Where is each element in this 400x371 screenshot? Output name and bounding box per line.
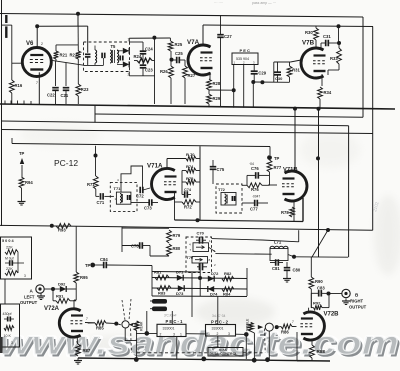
wire input rail x12 bbox=[11, 25, 13, 80]
wire R25 top bbox=[169, 38, 171, 41]
capacitor C28 bbox=[274, 62, 283, 82]
svg-text:TP: TP bbox=[19, 151, 25, 156]
svg-text:C25: C25 bbox=[175, 51, 183, 56]
svg-text:R95: R95 bbox=[80, 275, 88, 280]
wire dot1 drop bbox=[77, 14, 79, 26]
wire V6 plate to bus bbox=[36, 26, 38, 48]
junction dot treble out bbox=[275, 325, 279, 329]
potentiometer TREBLE bbox=[246, 318, 274, 332]
junction dot PEC-1 in bbox=[145, 331, 150, 336]
junction dot y230 x328 bbox=[326, 228, 330, 232]
wire PEC-2 out bbox=[236, 333, 247, 335]
svg-text:3: 3 bbox=[24, 274, 26, 278]
diode D92 bbox=[53, 282, 76, 293]
wire R21 bottom bbox=[55, 59, 57, 61]
resistor R79 bbox=[167, 230, 181, 243]
svg-text:REAR: REAR bbox=[140, 321, 144, 331]
resistor R21 bbox=[54, 51, 68, 59]
wire T70 leg a bbox=[191, 272, 193, 317]
svg-text:R94: R94 bbox=[25, 180, 33, 185]
wire bottom bus bbox=[78, 358, 330, 361]
resistor R92 bbox=[311, 293, 329, 310]
module PEC pin 3 wire bbox=[253, 65, 255, 72]
wire jack to node bbox=[44, 288, 53, 290]
svg-text:R72: R72 bbox=[184, 205, 192, 210]
wire T3 module bottom row bbox=[84, 64, 104, 66]
linkage dashed rear pot bbox=[130, 329, 133, 353]
wire cathode line y221 bbox=[175, 220, 304, 222]
svg-text:V71A: V71A bbox=[147, 163, 163, 170]
svg-text:C78: C78 bbox=[131, 244, 139, 249]
capacitor C73 bbox=[144, 199, 158, 210]
svg-text:OUTPUT: OUTPUT bbox=[20, 300, 38, 305]
wire V72B plate lead bbox=[308, 308, 310, 312]
wire V7B cathode down bbox=[321, 74, 323, 86]
svg-text:V72A: V72A bbox=[44, 306, 60, 312]
capacitor C21 bbox=[61, 88, 70, 104]
wire V7B grid stub bbox=[290, 60, 301, 62]
test point TP right bbox=[267, 155, 279, 161]
bus tick 5 bbox=[30, 101, 32, 104]
svg-text:LEFT: LEFT bbox=[24, 295, 35, 300]
capacitor inside T3 module bbox=[85, 54, 91, 65]
wire T3 pin1 row bbox=[130, 41, 144, 43]
wire T70 upper out bbox=[209, 247, 216, 252]
wire x122 drop bbox=[121, 227, 123, 252]
junction dot bus x267 bbox=[265, 357, 270, 362]
svg-text:3•L·C’·34: 3•L·C’·34 bbox=[212, 314, 226, 318]
junction dot R85 node bbox=[114, 322, 118, 326]
svg-text:5 0 0 4: 5 0 0 4 bbox=[2, 239, 14, 243]
switch contact lower box bbox=[192, 257, 208, 264]
resistor R24 bbox=[134, 54, 155, 63]
bus tick 3 bbox=[17, 101, 19, 105]
resistor R34 bbox=[318, 87, 332, 108]
linkage dashed left bbox=[137, 352, 208, 354]
wire B+ drop to C31 bbox=[338, 26, 340, 43]
wire to jack B bbox=[329, 293, 342, 295]
svg-text:R77: R77 bbox=[274, 165, 282, 170]
resistor R80 bbox=[167, 244, 181, 256]
wire gate mid drop bbox=[199, 263, 201, 297]
svg-text:C27: C27 bbox=[224, 34, 232, 39]
record head upper bbox=[150, 299, 167, 304]
wire B+ drop x200 bbox=[199, 146, 201, 220]
wire PEC-1 dot up bbox=[146, 311, 148, 333]
wire V71A cathode down bbox=[174, 192, 176, 220]
svg-text:C77: C77 bbox=[250, 207, 258, 212]
svg-text:R79: R79 bbox=[173, 233, 181, 238]
wire V6 grid bbox=[12, 62, 23, 64]
wire bus line2 bbox=[95, 114, 363, 117]
capacitor C72 bbox=[136, 187, 150, 199]
capacitor T3 right bbox=[120, 56, 123, 61]
resistor R84 bbox=[222, 287, 234, 297]
svg-text:C81: C81 bbox=[272, 266, 280, 271]
svg-text:7: 7 bbox=[86, 317, 88, 321]
junction dot jack B node bbox=[327, 292, 331, 296]
wire line5 corner drop bbox=[269, 147, 271, 156]
diode D2 in T3 bbox=[117, 61, 129, 67]
module PEC pin 2 wire bbox=[243, 65, 245, 108]
wire PEC-1 pin3 down bbox=[176, 337, 178, 359]
diode D73 bbox=[176, 285, 184, 296]
transformer T71 winding bbox=[120, 194, 122, 203]
junction dot feed V71A grid chain bbox=[94, 154, 98, 158]
junction dot gate mid bbox=[198, 276, 202, 280]
capacitor C80 bbox=[284, 262, 301, 276]
svg-text:P E C: P E C bbox=[240, 48, 250, 53]
wire L71 to node bbox=[288, 255, 294, 257]
test point TP mid bbox=[85, 263, 95, 268]
transformer T71 dashed box bbox=[110, 182, 137, 211]
wire gate row2 bbox=[152, 288, 247, 289]
transformer T72 dashed box bbox=[216, 184, 242, 213]
tube V71B bbox=[282, 167, 307, 201]
wire left edge rail bbox=[1, 0, 3, 226]
svg-text:R92: R92 bbox=[313, 301, 321, 306]
svg-text:R80: R80 bbox=[173, 246, 181, 251]
junction dot bus x254 bbox=[252, 358, 257, 363]
svg-text:C22: C22 bbox=[47, 93, 55, 98]
wire screen feed row bbox=[209, 89, 234, 91]
svg-text:V7A: V7A bbox=[187, 39, 200, 46]
wire bus line3 bbox=[2, 121, 349, 126]
svg-text:R16: R16 bbox=[15, 83, 23, 88]
wire V72B bottom loop bbox=[296, 332, 298, 361]
capacitor C70 bbox=[196, 231, 206, 244]
junction dot bus x203 bbox=[201, 357, 206, 362]
wire plate row bbox=[167, 158, 186, 160]
resistor R91 bbox=[53, 289, 76, 303]
wire V71B grid stub bbox=[268, 184, 277, 186]
transformer T3 primary winding bbox=[95, 50, 97, 63]
module PEC 535904 bbox=[232, 53, 258, 65]
wire feedback line y226 bbox=[0, 225, 122, 226]
junction dot bus x296 bbox=[293, 107, 297, 111]
svg-text:R75: R75 bbox=[186, 176, 194, 181]
svg-text:7: 7 bbox=[36, 81, 38, 85]
svg-text:R90: R90 bbox=[315, 279, 323, 284]
wire T71 pin4 riser bbox=[121, 166, 143, 192]
svg-text:22K: 22K bbox=[6, 246, 13, 250]
transformer T3 tertiary winding bbox=[117, 50, 119, 63]
wire x311 drop to R90 bbox=[310, 257, 312, 277]
tube V7B bbox=[301, 40, 326, 79]
capacitor C71 bbox=[97, 193, 114, 205]
resistor R29 bbox=[207, 90, 221, 107]
wire V7A cathode bbox=[209, 72, 211, 79]
wire C29 drop to bus bbox=[252, 82, 254, 108]
wire treble pot down bbox=[268, 331, 270, 360]
resistor R87 bbox=[76, 344, 91, 356]
wire x95 drop bbox=[95, 146, 97, 176]
junction dot L71 node bbox=[292, 255, 296, 259]
wire bias line bbox=[129, 37, 170, 39]
svg-text:C31: C31 bbox=[323, 34, 331, 39]
wire R22 below bbox=[77, 59, 79, 64]
svg-text:333001: 333001 bbox=[163, 326, 175, 330]
svg-text:C72: C72 bbox=[136, 194, 144, 199]
wire gate box bottom bbox=[152, 295, 247, 298]
wire V6 plate to T3 bbox=[52, 60, 84, 65]
svg-text:10 K: 10 K bbox=[4, 334, 12, 338]
resistor R86 bbox=[277, 324, 297, 334]
jack B right output bbox=[342, 289, 367, 309]
wire gate right rail bbox=[246, 268, 248, 296]
module PEC pin 1 wire bbox=[233, 65, 235, 91]
svg-text:R28: R28 bbox=[213, 81, 221, 86]
wire head leg to PEC-1 top bbox=[171, 311, 173, 324]
svg-text:T71: T71 bbox=[114, 186, 122, 191]
svg-text:3: 3 bbox=[228, 332, 230, 336]
junction dot V7A grid node bbox=[170, 58, 174, 62]
diode D74 bbox=[208, 286, 218, 296]
svg-text:R93: R93 bbox=[58, 228, 66, 233]
wire bus line5 bbox=[12, 144, 270, 147]
capacitor C25 bbox=[172, 51, 186, 63]
wire T71 out right bbox=[131, 202, 145, 204]
resistor R90 bbox=[309, 277, 323, 289]
svg-text:··· ····: ··· ···· bbox=[214, 1, 223, 5]
svg-text:333001: 333001 bbox=[212, 327, 224, 331]
svg-text:R26: R26 bbox=[160, 69, 168, 74]
wire V72A plate up bbox=[73, 300, 75, 310]
svg-text:C83: C83 bbox=[317, 286, 325, 291]
capacitor C29 bbox=[251, 71, 267, 83]
svg-text:7: 7 bbox=[292, 320, 294, 324]
ground at left jack bbox=[40, 294, 42, 297]
label DUAL CONTROL bbox=[208, 348, 243, 357]
wire heads dashed b bbox=[129, 299, 131, 320]
tube V71A bbox=[147, 163, 177, 200]
svg-text:V72B: V72B bbox=[324, 312, 340, 318]
ground below R94 bbox=[21, 199, 23, 202]
capacitor C31 bbox=[321, 34, 339, 48]
wire right rail x155 bbox=[154, 38, 156, 104]
transformer T3 core bbox=[112, 50, 114, 63]
ground below C80 bbox=[286, 276, 288, 279]
shield bold mark a bbox=[5, 15, 7, 23]
svg-text:C80: C80 bbox=[293, 268, 301, 273]
capacitor C78 bbox=[122, 242, 169, 256]
resistor R28 bbox=[207, 79, 221, 90]
resistor R25 bbox=[168, 41, 183, 51]
wire T3 pin2 row bbox=[128, 72, 130, 76]
svg-text:OUTPUT: OUTPUT bbox=[349, 305, 367, 310]
ground below R87 bbox=[77, 358, 79, 361]
wire gate row1 bbox=[152, 278, 247, 279]
wire x76 drop from y226 bbox=[75, 226, 77, 272]
diode D71 bbox=[176, 270, 184, 281]
svg-text:V7B: V7B bbox=[302, 40, 315, 47]
module PEC 5004 box bbox=[1, 237, 32, 279]
capacitor C24 bbox=[140, 42, 154, 61]
svg-text:L71: L71 bbox=[274, 240, 282, 245]
bus tick 2 bbox=[10, 101, 12, 105]
junction dot bus x318 bbox=[317, 107, 321, 111]
capacitor C74 bbox=[182, 182, 192, 198]
potentiometer REAR bbox=[122, 321, 144, 331]
wire rear pot bottom bbox=[125, 328, 136, 341]
inductor L71 bbox=[270, 240, 288, 261]
svg-text:pass amp — ···: pass amp — ··· bbox=[252, 1, 276, 5]
wire C84 rail drop bbox=[151, 266, 153, 272]
junction dot x318 y158 bbox=[316, 156, 320, 160]
wire C29 node up bbox=[273, 62, 275, 82]
capacitor C84 bbox=[95, 257, 152, 268]
shield bold mark b bbox=[5, 26, 7, 38]
resistor R33 bbox=[330, 43, 341, 70]
wire V6 screen bus bbox=[37, 25, 87, 27]
svg-text:C84: C84 bbox=[100, 257, 108, 262]
wire C21 up bbox=[65, 63, 67, 86]
svg-text:C74: C74 bbox=[184, 188, 192, 192]
wire top B+ bus bbox=[0, 14, 363, 18]
capacitor C76 bbox=[247, 162, 270, 179]
wire PEC-2 out drop bbox=[245, 334, 247, 359]
module PEC-2 box bbox=[206, 325, 236, 337]
capacitor C23 bbox=[140, 61, 154, 76]
svg-text:1: 1 bbox=[128, 38, 130, 42]
wire heads dashed a bbox=[122, 300, 125, 320]
svg-text:D71: D71 bbox=[176, 270, 184, 275]
wire diag x328 to L71 node bbox=[312, 230, 328, 257]
capacitor 430pf sym bbox=[7, 317, 9, 322]
wire V6 cathode down bbox=[38, 72, 40, 104]
wire gate left rail bbox=[151, 272, 153, 297]
wire x348 rail bbox=[348, 126, 350, 230]
junction dot PEC-2 out bbox=[244, 332, 249, 337]
wire gate box top bbox=[152, 271, 200, 274]
svg-text:R86: R86 bbox=[281, 330, 289, 335]
resistor R76 bbox=[247, 175, 270, 192]
svg-text:C24: C24 bbox=[145, 47, 153, 52]
svg-text:3: 3 bbox=[173, 332, 175, 336]
capacitor C75 bbox=[210, 160, 225, 184]
svg-text:R23: R23 bbox=[81, 87, 89, 92]
resistor R23 bbox=[76, 64, 89, 104]
svg-text:D74: D74 bbox=[210, 291, 218, 296]
svg-text:R25: R25 bbox=[175, 42, 183, 47]
wire bias pin1 up bbox=[128, 38, 130, 42]
wire V71B plate up bbox=[294, 109, 296, 171]
resistor R71 bbox=[87, 176, 98, 189]
wire PEC-2 pin2 down bbox=[217, 336, 219, 348]
scan edge mark bottom-left bbox=[0, 337, 3, 353]
svg-text:R81: R81 bbox=[154, 270, 162, 275]
wire R25 bottom bbox=[170, 51, 172, 60]
resistor R95 bbox=[74, 272, 89, 283]
svg-text:R83: R83 bbox=[158, 291, 166, 296]
wire left rail join bbox=[1, 121, 3, 226]
svg-text:R34: R34 bbox=[324, 90, 332, 95]
junction dot PEC1 drop bbox=[232, 88, 236, 92]
resistor R26 bbox=[160, 60, 173, 104]
resistor R70 bbox=[186, 152, 200, 161]
resistor R31 bbox=[287, 62, 300, 82]
wire long line y229 bbox=[122, 227, 373, 231]
wire T72 to V71B grid bbox=[242, 184, 247, 186]
wire V72B cathode down bbox=[311, 340, 313, 345]
wire V72A cathode bbox=[76, 336, 78, 344]
capacitor C77 bbox=[242, 195, 268, 212]
svg-text:C23: C23 bbox=[145, 68, 153, 73]
svg-text:3: 3 bbox=[11, 341, 13, 345]
tube V6 bbox=[22, 41, 51, 76]
svg-text:1: 1 bbox=[180, 332, 182, 336]
wire B+ line y25 bbox=[203, 25, 373, 27]
wire R95 down bbox=[75, 283, 77, 300]
wire C28 R31 top bbox=[274, 61, 291, 63]
svg-text:P E C - 2: P E C - 2 bbox=[211, 320, 229, 325]
svg-text:R29: R29 bbox=[213, 96, 221, 101]
resistor R22 bbox=[70, 51, 81, 59]
svg-text:2: 2 bbox=[160, 332, 162, 336]
wire R88 to bus bbox=[311, 358, 313, 361]
resistor R77 bbox=[267, 160, 282, 175]
svg-text:C30: C30 bbox=[275, 76, 283, 81]
svg-text:R30: R30 bbox=[305, 30, 313, 35]
wire x318 drop bbox=[318, 109, 320, 257]
wire V71A plate up bbox=[166, 159, 168, 170]
wire top bus right corner drop bbox=[362, 17, 364, 117]
resistor 22K upper bbox=[5, 246, 18, 255]
jack A left output bbox=[20, 285, 44, 305]
wire B+ right corner bbox=[372, 27, 374, 134]
test point TP left bbox=[19, 151, 25, 177]
svg-text:3’C.K I•F: 3’C.K I•F bbox=[164, 314, 177, 318]
svg-text:M 0µf: M 0µf bbox=[5, 257, 14, 261]
wire R90 node bbox=[310, 289, 312, 308]
svg-text:R78: R78 bbox=[281, 210, 289, 215]
wire node to pot bbox=[116, 324, 121, 325]
switch contact upper box bbox=[193, 243, 209, 252]
tube V72A bbox=[44, 306, 84, 337]
junction dot x200 y220 bbox=[196, 218, 200, 222]
junction dot bias node bbox=[152, 36, 156, 40]
wire R71 to C71 bbox=[95, 189, 97, 196]
transformer T3 dashed box bbox=[84, 42, 130, 72]
svg-text:R85: R85 bbox=[96, 326, 104, 331]
transformer T72 winding bbox=[225, 194, 227, 204]
bus tick 4 bbox=[23, 101, 25, 105]
capacitor 140uf bbox=[5, 257, 18, 266]
wire PEC-1 to PEC-2 bbox=[186, 333, 206, 335]
svg-text:R74: R74 bbox=[186, 164, 194, 169]
wire line2 left drop bbox=[94, 105, 96, 122]
resistor R30 bbox=[305, 26, 318, 48]
junction dot C29 right node bbox=[260, 80, 264, 84]
watermark www.sandacite.com bbox=[0, 325, 400, 365]
transformer T72 inner box bbox=[221, 193, 236, 206]
resistor R81 bbox=[154, 270, 169, 280]
resistor R82 bbox=[222, 271, 234, 281]
wire C29 row bbox=[253, 81, 289, 83]
wire C22 up bbox=[55, 61, 57, 86]
wire 5004 down bbox=[4, 279, 6, 304]
svg-text:R82: R82 bbox=[224, 271, 232, 276]
wire bus line4 bbox=[2, 130, 373, 134]
svg-text:R88: R88 bbox=[317, 349, 326, 354]
wire V71A grid right bbox=[181, 171, 183, 183]
junction dot on B+ line bbox=[337, 24, 341, 28]
transformer T3 secondary winding bbox=[110, 50, 112, 63]
svg-text:R31: R31 bbox=[292, 68, 300, 73]
linkage dashed treble pot bbox=[264, 329, 267, 353]
wire V7A plate up bbox=[202, 25, 204, 46]
switch T70 dashed box bbox=[186, 237, 212, 273]
